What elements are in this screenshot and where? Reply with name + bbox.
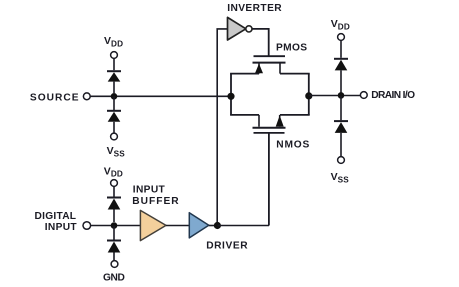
wire junction to gnd diode — [113, 226, 115, 240]
label INPUT BUFFER — [132, 184, 179, 207]
wire tgate right vertical — [308, 74, 310, 115]
wire drain line — [309, 95, 361, 97]
junction drain chain — [338, 92, 345, 99]
junction driver output — [214, 222, 221, 229]
diode VSS-to-source — [107, 111, 121, 133]
terminal SOURCE — [83, 93, 90, 100]
terminal DRAIN I/O — [360, 92, 367, 99]
junction digital chain — [111, 222, 118, 229]
wire source line — [90, 95, 231, 97]
wire tgate top-left — [230, 73, 259, 75]
svg-text:DIGITAL: DIGITAL — [35, 211, 77, 222]
wire tgate left vertical — [230, 74, 232, 115]
svg-text:INPUT: INPUT — [45, 222, 78, 233]
svg-text:DRIVER: DRIVER — [206, 241, 248, 252]
label DIGITAL INPUT — [35, 211, 78, 233]
wire vdd digital to diode — [113, 186, 115, 196]
diode drain-to-VDD — [334, 59, 348, 93]
svg-text:SOURCE: SOURCE — [30, 92, 80, 103]
wire driver to NMOS gate — [217, 225, 269, 227]
wire digital input line — [91, 225, 141, 227]
junction tgate left — [227, 93, 234, 100]
wire vdd right to diode — [340, 40, 342, 57]
terminal DIGITAL INPUT — [83, 222, 91, 230]
terminal VSS left — [111, 133, 118, 140]
terminal VDD left-top — [111, 52, 118, 59]
terminal VSS right — [338, 157, 345, 164]
wire junction to lower diode right — [340, 96, 342, 120]
wire tgate top-right — [280, 73, 310, 75]
inverter gate — [228, 17, 252, 40]
wire vdd to diode — [113, 58, 115, 70]
buffer U2 driver — [189, 213, 209, 238]
diode VSS-to-drain — [334, 121, 348, 157]
buffer U1 input buffer — [140, 210, 166, 240]
nmos NMOS — [253, 115, 286, 133]
wire tgate bottom-left — [230, 114, 259, 116]
junction tgate right — [305, 92, 312, 99]
terminal GND — [111, 261, 118, 268]
svg-text:INPUT: INPUT — [133, 184, 166, 195]
svg-text:PMOS: PMOS — [276, 42, 307, 53]
diode input-to-VDD — [107, 198, 121, 223]
wire inverter output to PMOS gate — [252, 29, 269, 56]
wire tgate bottom-right — [280, 114, 310, 116]
wire inverter input — [217, 29, 227, 226]
wire junction to lower diode — [113, 96, 115, 110]
svg-text:INVERTER: INVERTER — [227, 3, 282, 14]
wire driver output — [209, 225, 217, 227]
svg-text:NMOS: NMOS — [276, 140, 310, 151]
diode GND-to-input — [107, 241, 121, 261]
svg-text:BUFFER: BUFFER — [132, 196, 179, 207]
svg-text:GND: GND — [103, 272, 124, 283]
junction source chain — [111, 93, 118, 100]
wire buffer to driver — [166, 225, 189, 227]
terminal VDD digital — [111, 180, 118, 187]
diode source-to-VDD — [107, 71, 121, 93]
svg-text:DRAIN I/O: DRAIN I/O — [371, 90, 415, 101]
terminal VDD right — [338, 34, 345, 41]
pmos PMOS — [253, 56, 286, 73]
wire NMOS gate — [268, 133, 270, 226]
